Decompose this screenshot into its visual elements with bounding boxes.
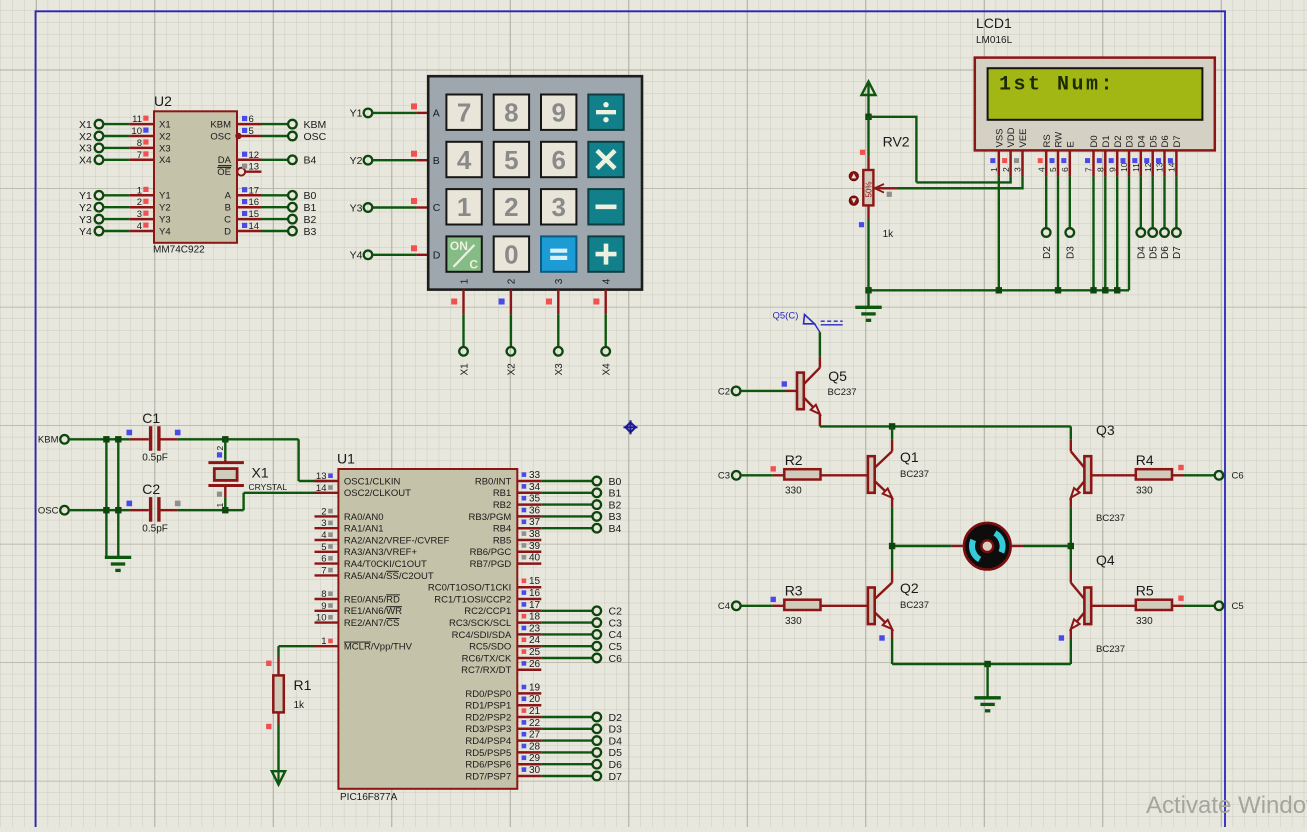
svg-text:2: 2 — [507, 278, 518, 284]
svg-text:26: 26 — [529, 659, 541, 670]
svg-text:RC0/T1OSO/T1CKI: RC0/T1OSO/T1CKI — [428, 583, 511, 594]
svg-text:D2: D2 — [1113, 135, 1124, 147]
svg-text:R5: R5 — [1136, 583, 1154, 599]
svg-text:RC7/RX/DT: RC7/RX/DT — [461, 665, 511, 676]
svg-text:B2: B2 — [304, 214, 317, 226]
svg-text:5: 5 — [321, 542, 326, 553]
svg-text:RD6/PSP6: RD6/PSP6 — [465, 760, 511, 771]
svg-text:330: 330 — [1136, 616, 1153, 627]
svg-text:B2: B2 — [609, 499, 622, 511]
svg-text:X4: X4 — [159, 155, 171, 166]
svg-text:VEE: VEE — [1018, 128, 1029, 147]
svg-text:38: 38 — [529, 529, 541, 540]
svg-text:36: 36 — [529, 505, 541, 516]
svg-text:RC5/SDO: RC5/SDO — [469, 642, 511, 653]
svg-text:C5: C5 — [609, 641, 623, 653]
svg-text:11: 11 — [1131, 163, 1141, 172]
svg-text:D5: D5 — [1148, 246, 1159, 259]
svg-text:10: 10 — [316, 613, 327, 624]
svg-text:D5: D5 — [1148, 135, 1159, 147]
svg-text:4: 4 — [457, 145, 472, 175]
svg-text:D2: D2 — [1042, 246, 1053, 259]
svg-text:Q2: Q2 — [900, 580, 919, 596]
svg-text:R2: R2 — [785, 452, 803, 468]
svg-text:B: B — [433, 155, 440, 167]
svg-text:B1: B1 — [609, 488, 622, 500]
svg-text:1st Num:: 1st Num: — [999, 74, 1115, 97]
svg-text:8: 8 — [137, 138, 142, 149]
svg-text:27: 27 — [529, 730, 541, 741]
svg-text:1: 1 — [459, 278, 470, 284]
svg-text:RB0/INT: RB0/INT — [475, 476, 512, 487]
svg-text:X1: X1 — [159, 120, 171, 131]
svg-text:OSC1/CLKIN: OSC1/CLKIN — [344, 476, 401, 487]
svg-text:R1: R1 — [294, 677, 312, 693]
svg-text:X4: X4 — [602, 363, 613, 376]
svg-text:X4: X4 — [79, 155, 92, 167]
svg-text:A: A — [433, 108, 440, 120]
svg-text:29: 29 — [529, 753, 541, 764]
svg-text:24: 24 — [529, 635, 541, 646]
svg-text:D0: D0 — [1089, 135, 1100, 147]
svg-text:1k: 1k — [883, 229, 895, 240]
svg-text:RB2: RB2 — [493, 500, 511, 511]
svg-text:RE0/AN5/RD: RE0/AN5/RD — [344, 594, 400, 605]
svg-text:RA1/AN1: RA1/AN1 — [344, 524, 384, 535]
svg-text:KBM: KBM — [210, 120, 231, 131]
svg-text:B1: B1 — [304, 202, 317, 214]
svg-text:15: 15 — [529, 576, 541, 587]
svg-text:RE1/AN6/WR: RE1/AN6/WR — [344, 606, 402, 617]
svg-text:Y1: Y1 — [350, 108, 363, 120]
svg-text:BC237: BC237 — [1096, 644, 1125, 655]
svg-text:5: 5 — [1048, 167, 1058, 172]
svg-text:RC3/SCK/SCL: RC3/SCK/SCL — [449, 618, 511, 629]
svg-text:30: 30 — [529, 765, 541, 776]
svg-text:C3: C3 — [718, 471, 730, 482]
svg-text:17: 17 — [249, 185, 260, 196]
svg-text:B3: B3 — [609, 511, 622, 523]
svg-text:330: 330 — [785, 486, 802, 497]
svg-text:1: 1 — [457, 192, 471, 222]
svg-text:RD4/PSP4: RD4/PSP4 — [465, 736, 511, 747]
svg-text:1k: 1k — [294, 700, 306, 711]
svg-text:Y4: Y4 — [79, 226, 92, 238]
svg-text:7: 7 — [137, 150, 142, 161]
svg-text:VSS: VSS — [994, 128, 1005, 147]
svg-text:Y3: Y3 — [350, 202, 363, 214]
svg-text:X3: X3 — [79, 143, 92, 155]
svg-text:33: 33 — [529, 470, 541, 481]
svg-text:VDD: VDD — [1006, 127, 1017, 147]
svg-text:1: 1 — [989, 167, 999, 172]
svg-text:R3: R3 — [785, 583, 803, 599]
svg-text:OE: OE — [217, 167, 231, 178]
svg-text:6: 6 — [249, 114, 254, 125]
svg-text:D7: D7 — [609, 771, 623, 783]
svg-text:RB6/PGC: RB6/PGC — [470, 547, 512, 558]
svg-text:D5: D5 — [609, 747, 623, 759]
svg-text:6: 6 — [1060, 167, 1070, 172]
svg-text:18: 18 — [529, 612, 541, 623]
svg-text:X1: X1 — [79, 119, 92, 131]
svg-text:BC237: BC237 — [1096, 513, 1125, 524]
svg-text:BC237: BC237 — [900, 600, 929, 611]
svg-text:OSC: OSC — [38, 506, 59, 517]
svg-text:3: 3 — [554, 278, 565, 284]
svg-text:D7: D7 — [1172, 135, 1183, 147]
svg-text:2: 2 — [137, 197, 142, 208]
svg-text:Y4: Y4 — [350, 250, 363, 262]
svg-text:D1: D1 — [1101, 135, 1112, 147]
svg-text:330: 330 — [785, 616, 802, 627]
svg-text:16: 16 — [529, 588, 541, 599]
svg-text:C3: C3 — [609, 617, 623, 629]
svg-text:X1: X1 — [252, 465, 269, 481]
svg-text:CRYSTAL: CRYSTAL — [249, 482, 288, 492]
svg-text:8: 8 — [504, 98, 518, 128]
svg-text:25: 25 — [529, 647, 541, 658]
svg-text:ON: ON — [450, 239, 468, 253]
svg-text:Y2: Y2 — [79, 202, 92, 214]
svg-text:9: 9 — [1107, 167, 1117, 172]
svg-text:11: 11 — [132, 114, 142, 125]
svg-text:3: 3 — [551, 192, 565, 222]
svg-text:D6: D6 — [1160, 246, 1171, 259]
svg-text:RB5: RB5 — [493, 535, 511, 546]
svg-text:Y1: Y1 — [79, 190, 92, 202]
svg-text:Y4: Y4 — [159, 226, 171, 237]
svg-text:C4: C4 — [718, 601, 730, 612]
svg-text:X2: X2 — [159, 131, 171, 142]
svg-text:DA: DA — [218, 155, 232, 166]
svg-text:13: 13 — [249, 162, 260, 173]
svg-text:BC237: BC237 — [900, 469, 929, 480]
svg-text:Q1: Q1 — [900, 449, 919, 465]
svg-text:Y3: Y3 — [79, 214, 92, 226]
svg-text:22: 22 — [529, 718, 541, 729]
svg-text:RS: RS — [1042, 134, 1053, 147]
svg-text:6: 6 — [321, 554, 326, 565]
svg-text:D4: D4 — [1136, 246, 1147, 259]
svg-text:B: B — [225, 203, 231, 214]
svg-text:9: 9 — [321, 601, 326, 612]
svg-text:2: 2 — [504, 192, 518, 222]
svg-text:0.5pF: 0.5pF — [142, 524, 168, 535]
svg-text:21: 21 — [529, 706, 541, 717]
svg-text:14: 14 — [249, 221, 260, 232]
svg-text:Q3: Q3 — [1096, 422, 1115, 438]
svg-text:37: 37 — [529, 517, 541, 528]
svg-text:RC2/CCP1: RC2/CCP1 — [464, 606, 511, 617]
svg-text:LM016L: LM016L — [976, 35, 1013, 46]
svg-text:4: 4 — [602, 278, 613, 284]
svg-text:A: A — [225, 191, 232, 202]
svg-text:PIC16F877A: PIC16F877A — [340, 792, 398, 803]
svg-text:X3: X3 — [554, 363, 565, 376]
svg-text:330: 330 — [1136, 486, 1153, 497]
svg-text:5: 5 — [249, 126, 254, 137]
svg-text:13: 13 — [1155, 162, 1165, 172]
svg-text:C2: C2 — [718, 386, 730, 397]
svg-text:Q4: Q4 — [1096, 552, 1115, 568]
svg-text:C5: C5 — [1232, 601, 1244, 612]
svg-text:35: 35 — [529, 494, 541, 505]
svg-text:RD0/PSP0: RD0/PSP0 — [465, 689, 511, 700]
svg-text:50%: 50% — [865, 181, 874, 197]
svg-text:RA3/AN3/VREF+: RA3/AN3/VREF+ — [344, 547, 418, 558]
svg-text:B4: B4 — [609, 523, 622, 535]
svg-text:U1: U1 — [337, 451, 355, 467]
svg-text:RD7/PSP7: RD7/PSP7 — [465, 771, 511, 782]
svg-text:13: 13 — [316, 471, 327, 482]
svg-text:39: 39 — [529, 541, 541, 552]
svg-text:BC237: BC237 — [828, 387, 857, 398]
svg-text:D3: D3 — [609, 724, 623, 736]
svg-text:X2: X2 — [507, 363, 518, 376]
svg-text:0.5pF: 0.5pF — [142, 453, 168, 464]
svg-text:OSC2/CLKOUT: OSC2/CLKOUT — [344, 488, 411, 499]
svg-text:D: D — [224, 226, 231, 237]
svg-text:C2: C2 — [609, 606, 623, 618]
svg-text:C6: C6 — [1232, 471, 1244, 482]
svg-text:RD5/PSP5: RD5/PSP5 — [465, 748, 511, 759]
svg-text:RA2/AN2/VREF-/CVREF: RA2/AN2/VREF-/CVREF — [344, 535, 450, 546]
svg-text:C: C — [433, 202, 441, 214]
svg-text:D3: D3 — [1125, 135, 1136, 147]
svg-text:Activate Windows: Activate Windows — [1146, 792, 1307, 819]
svg-text:RA5/AN4/SS/C2OUT: RA5/AN4/SS/C2OUT — [344, 571, 434, 582]
svg-text:C1: C1 — [142, 410, 160, 426]
svg-text:19: 19 — [529, 682, 541, 693]
svg-text:7: 7 — [1084, 167, 1094, 172]
svg-text:B0: B0 — [609, 476, 622, 488]
svg-text:LCD1: LCD1 — [976, 15, 1012, 31]
svg-text:23: 23 — [529, 623, 541, 634]
svg-text:R4: R4 — [1136, 452, 1154, 468]
svg-text:15: 15 — [249, 209, 260, 220]
svg-text:C4: C4 — [609, 629, 623, 641]
svg-text:RB1: RB1 — [493, 488, 511, 499]
svg-text:5: 5 — [504, 145, 518, 175]
svg-text:D7: D7 — [1172, 246, 1183, 259]
svg-text:C6: C6 — [609, 653, 623, 665]
svg-text:Y1: Y1 — [159, 191, 171, 202]
svg-text:28: 28 — [529, 741, 541, 752]
svg-text:RC6/TX/CK: RC6/TX/CK — [462, 653, 512, 664]
svg-text:10: 10 — [1119, 162, 1129, 172]
svg-text:RA0/AN0: RA0/AN0 — [344, 512, 384, 523]
svg-text:9: 9 — [551, 98, 565, 128]
svg-text:C2: C2 — [142, 481, 160, 497]
svg-text:Y2: Y2 — [159, 203, 171, 214]
svg-text:8: 8 — [1096, 167, 1106, 172]
svg-text:RB3/PGM: RB3/PGM — [469, 512, 512, 523]
svg-text:2: 2 — [215, 446, 225, 451]
svg-text:RV2: RV2 — [883, 134, 910, 150]
svg-text:X1: X1 — [459, 363, 470, 376]
svg-text:4: 4 — [137, 221, 142, 232]
svg-text:3: 3 — [137, 209, 142, 220]
svg-text:D4: D4 — [1136, 135, 1147, 147]
svg-text:E: E — [1065, 141, 1076, 147]
svg-text:D3: D3 — [1065, 246, 1076, 259]
svg-text:D4: D4 — [609, 735, 623, 747]
svg-text:OSC: OSC — [304, 131, 327, 143]
svg-text:14: 14 — [316, 483, 327, 494]
svg-text:RA4/T0CKI/C1OUT: RA4/T0CKI/C1OUT — [344, 559, 427, 570]
svg-text:C: C — [224, 215, 231, 226]
svg-text:RC1/T1OSI/CCP2: RC1/T1OSI/CCP2 — [434, 594, 511, 605]
svg-text:3: 3 — [1013, 167, 1023, 172]
svg-text:KBM: KBM — [38, 435, 59, 446]
svg-text:14: 14 — [1167, 162, 1177, 172]
svg-text:RE2/AN7/CS: RE2/AN7/CS — [344, 618, 399, 629]
svg-text:7: 7 — [321, 565, 326, 576]
svg-text:1: 1 — [215, 503, 225, 508]
svg-text:1: 1 — [321, 636, 326, 647]
svg-text:12: 12 — [1143, 162, 1153, 172]
svg-text:Q5(C): Q5(C) — [773, 311, 799, 322]
svg-text:7: 7 — [457, 98, 471, 128]
svg-text:17: 17 — [529, 600, 541, 611]
svg-text:2: 2 — [1001, 167, 1011, 172]
svg-text:8: 8 — [321, 589, 326, 600]
svg-text:2: 2 — [321, 506, 326, 517]
svg-text:MCLR/Vpp/THV: MCLR/Vpp/THV — [344, 642, 413, 653]
svg-text:B3: B3 — [304, 226, 317, 238]
svg-text:U2: U2 — [154, 93, 172, 109]
svg-text:B0: B0 — [304, 190, 317, 202]
svg-text:D: D — [433, 249, 441, 261]
svg-text:34: 34 — [529, 482, 541, 493]
svg-text:X3: X3 — [159, 143, 171, 154]
svg-text:Y3: Y3 — [159, 215, 171, 226]
svg-text:X2: X2 — [79, 131, 92, 143]
svg-text:4: 4 — [1036, 167, 1046, 172]
svg-text:RB4: RB4 — [493, 524, 511, 535]
svg-text:RB7/PGD: RB7/PGD — [470, 559, 512, 570]
svg-text:16: 16 — [249, 197, 260, 208]
svg-text:10: 10 — [131, 126, 142, 137]
svg-text:D6: D6 — [609, 759, 623, 771]
svg-text:0: 0 — [504, 239, 518, 269]
svg-text:6: 6 — [551, 145, 565, 175]
svg-text:RC4/SDI/SDA: RC4/SDI/SDA — [452, 630, 512, 641]
svg-text:OSC: OSC — [210, 131, 231, 142]
svg-text:4: 4 — [321, 530, 326, 541]
svg-text:12: 12 — [249, 150, 260, 161]
svg-text:Q5: Q5 — [828, 368, 847, 384]
svg-text:C: C — [469, 257, 478, 271]
svg-text:RD1/PSP1: RD1/PSP1 — [465, 701, 511, 712]
svg-text:Y2: Y2 — [350, 155, 363, 167]
svg-text:40: 40 — [529, 553, 541, 564]
svg-text:D6: D6 — [1160, 135, 1171, 147]
svg-text:RD3/PSP3: RD3/PSP3 — [465, 724, 511, 735]
svg-text:3: 3 — [321, 518, 326, 529]
svg-text:B4: B4 — [304, 155, 317, 167]
svg-text:1: 1 — [137, 185, 142, 196]
svg-text:RD2/PSP2: RD2/PSP2 — [465, 712, 511, 723]
svg-text:D2: D2 — [609, 712, 623, 724]
svg-text:20: 20 — [529, 694, 541, 705]
svg-text:RW: RW — [1054, 132, 1065, 148]
svg-text:KBM: KBM — [304, 119, 327, 131]
svg-text:MM74C922: MM74C922 — [153, 245, 205, 256]
